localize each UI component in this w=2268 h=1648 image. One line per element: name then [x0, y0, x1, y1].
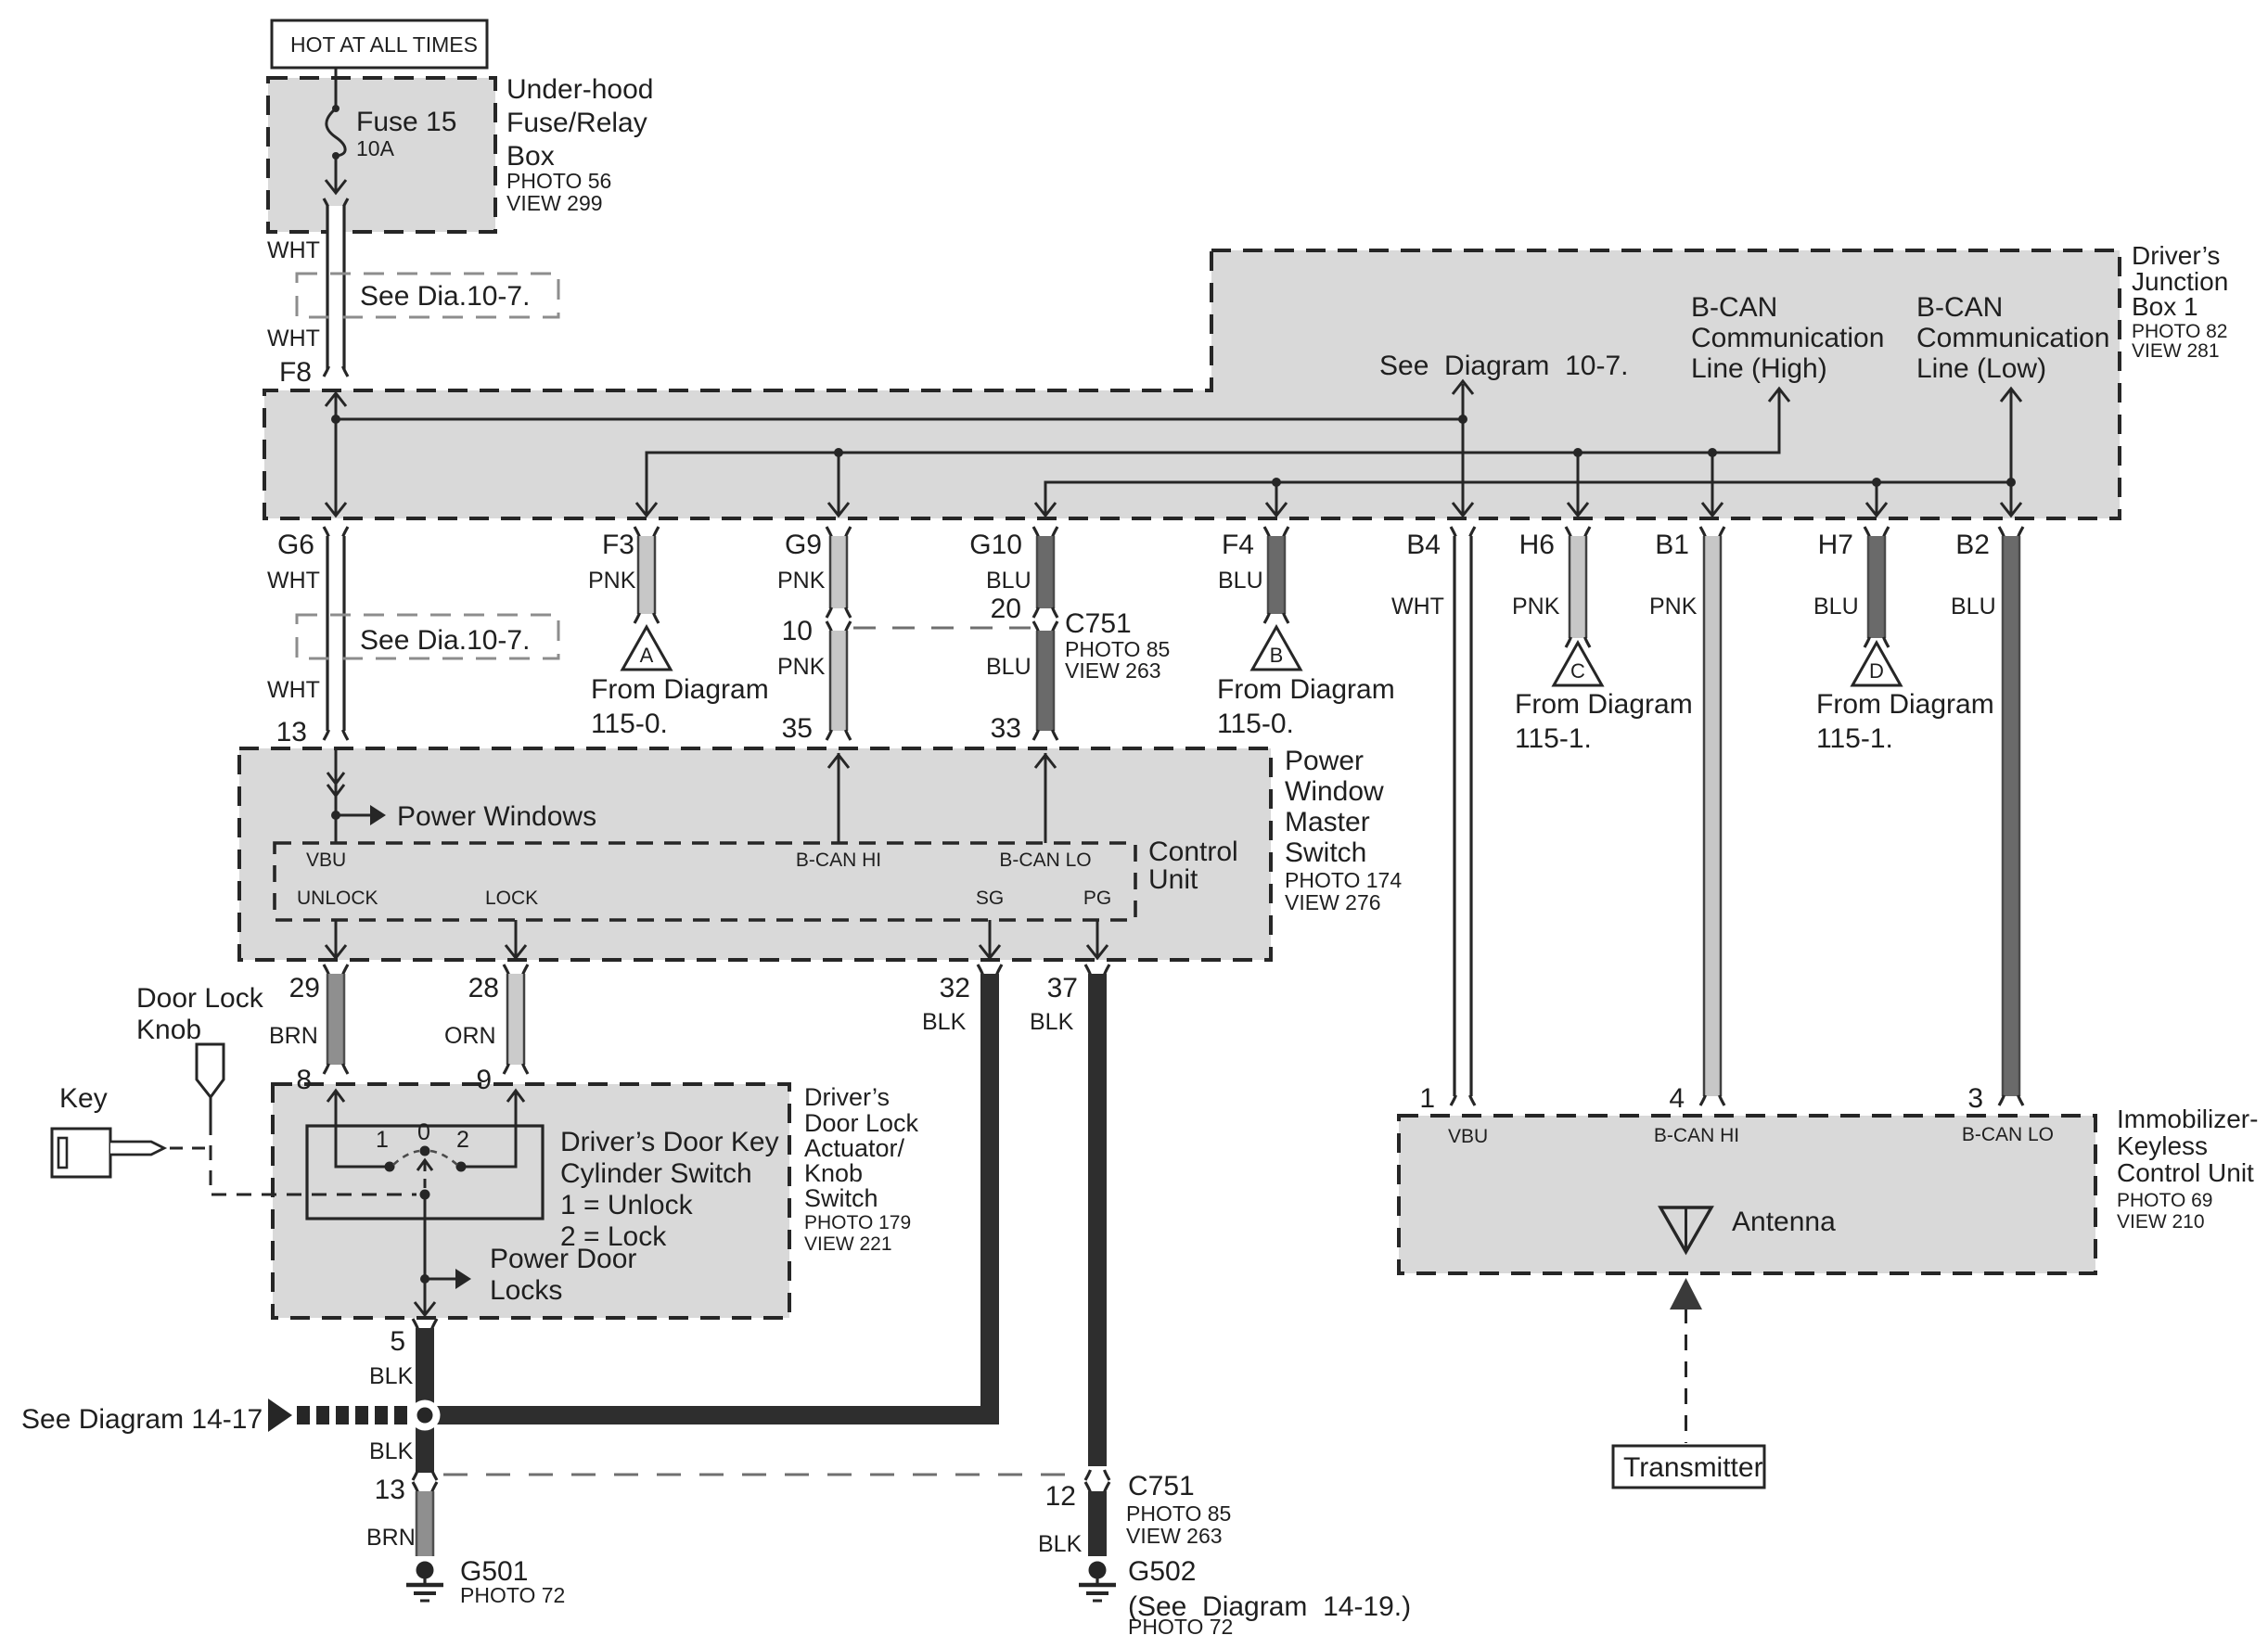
svg-text:Communication: Communication: [1916, 323, 2109, 353]
svg-text:115-1.: 115-1.: [1816, 723, 1893, 754]
wire B4 vertical drop to connector: [1453, 419, 1473, 516]
svg-text:Antenna: Antenna: [1732, 1207, 1836, 1237]
door lock knob symbol: [197, 1044, 224, 1120]
svg-text:From Diagram: From Diagram: [1515, 689, 1693, 720]
off-page triangle D: [1852, 643, 1901, 685]
svg-text:VIEW 276: VIEW 276: [1285, 890, 1381, 914]
svg-text:4: 4: [1669, 1083, 1685, 1114]
power door locks branch: [420, 1269, 471, 1289]
label Door Lock Knob: [136, 983, 264, 1045]
off-page arrow (See Diagram 14-17): [268, 1399, 292, 1432]
svg-text:Door Lock: Door Lock: [136, 983, 264, 1014]
svg-text:From Diagram: From Diagram: [1217, 674, 1395, 705]
svg-text:Cylinder Switch: Cylinder Switch: [560, 1158, 752, 1189]
connector pin 29 (BRN wire to pin 8): [289, 965, 348, 1074]
wire label BRN: [269, 1023, 318, 1049]
svg-text:B2: B2: [1955, 530, 1990, 560]
connector B4 (WHT wire down to immobilizer pin 1): [1406, 527, 1475, 1105]
wire label WHT (lower): [267, 326, 320, 351]
wire contact 1 to pin 8: [327, 1091, 390, 1167]
wire bus B-CAN HI: F3 to B-CAN Communication Line (High): [636, 389, 1789, 516]
off-page triangle A: [622, 627, 671, 670]
wire F4 vertical drop: [1266, 482, 1287, 516]
svg-text:Unit: Unit: [1148, 864, 1198, 895]
wire H6 vertical drop: [1568, 453, 1588, 516]
transmitter signal arrow (dashed): [1670, 1278, 1702, 1443]
svg-text:Door Lock: Door Lock: [804, 1109, 919, 1137]
pin B-CAN LO (control unit): [999, 850, 1091, 871]
svg-text:B-CAN: B-CAN: [1916, 292, 2003, 323]
pin 4 (immobilizer): [1669, 1083, 1685, 1114]
svg-text:Transmitter: Transmitter: [1623, 1452, 1763, 1483]
wire BLK: pin 32 down and left to splice: [433, 974, 999, 1424]
switch position labels 1 0 2: [376, 1119, 469, 1153]
pin VBU (immobilizer): [1448, 1126, 1488, 1147]
label G501 PHOTO 72: [460, 1556, 565, 1607]
svg-text:BLK: BLK: [369, 1438, 414, 1464]
pin UNLOCK: [297, 888, 378, 909]
wire label BLK (G502): [1038, 1531, 1083, 1557]
svg-text:VIEW 281: VIEW 281: [2132, 340, 2220, 362]
wire label BRN (G501): [366, 1525, 416, 1551]
wire label WHT (G6 upper): [267, 568, 320, 594]
svg-text:VBU: VBU: [306, 850, 346, 871]
wire contact 2 to pin 9: [461, 1091, 524, 1167]
switch contact 1: [385, 1162, 395, 1172]
svg-text:PHOTO 72: PHOTO 72: [1128, 1615, 1233, 1639]
svg-text:115-0.: 115-0.: [1217, 709, 1294, 739]
svg-text:PG: PG: [1083, 888, 1111, 909]
wire label BLK (below splice): [369, 1438, 414, 1464]
wire B-CAN LO riser (pin 33 into control unit): [1035, 753, 1056, 843]
control unit label: [1148, 837, 1238, 895]
connector G6 (WHT wire down to pin 13): [277, 527, 348, 740]
svg-text:PHOTO 174: PHOTO 174: [1285, 868, 1402, 892]
svg-text:G10: G10: [969, 530, 1022, 560]
svg-text:See Diagram 10-7.: See Diagram 10-7.: [1379, 351, 1628, 381]
svg-text:Knob: Knob: [136, 1015, 201, 1045]
under-hood fuse/relay box: [268, 78, 495, 232]
svg-text:BRN: BRN: [269, 1023, 318, 1049]
svg-text:13: 13: [375, 1475, 405, 1505]
wire label BLK (SG): [922, 1009, 967, 1035]
wire BLK: pin 37 down to C751 pin 12: [1088, 974, 1107, 1466]
wire bus B-CAN LO: G10 to B-CAN Communication Line (Low): [1035, 389, 2021, 516]
wire BLK pin 12 to ground G502: [1085, 1482, 1109, 1556]
key symbol: [52, 1129, 164, 1177]
svg-text:H6: H6: [1519, 530, 1555, 560]
wire SG output to pin 32: [980, 920, 1000, 958]
wire G9 vertical drop: [828, 453, 849, 516]
svg-text:G502: G502: [1128, 1556, 1196, 1587]
svg-text:BLU: BLU: [986, 568, 1031, 594]
wire UNLOCK output to pin 29: [326, 920, 346, 958]
label G502 (See Diagram 14-19.) PHOTO 72: [1128, 1556, 1411, 1639]
pin 12 (C751): [1045, 1470, 1109, 1512]
wire label PNK (H6): [1512, 594, 1560, 620]
wire label BLU (B2): [1951, 594, 1996, 620]
svg-text:Driver’s: Driver’s: [2132, 241, 2220, 270]
wire label WHT (G6 lower): [267, 677, 320, 703]
svg-text:B-CAN LO: B-CAN LO: [1962, 1124, 2054, 1145]
wire LOCK output to pin 28: [506, 920, 526, 958]
control unit inner box: [275, 843, 1135, 920]
svg-text:28: 28: [468, 973, 499, 1003]
label Key: [59, 1083, 108, 1114]
svg-text:C: C: [1570, 659, 1585, 683]
pin 35: [782, 713, 813, 744]
svg-text:WHT: WHT: [267, 677, 320, 703]
wire label BLU (F4): [1218, 568, 1263, 594]
svg-text:Box 1: Box 1: [2132, 292, 2198, 321]
svg-text:0: 0: [417, 1119, 430, 1145]
pin 33: [991, 713, 1021, 744]
svg-text:ORN: ORN: [444, 1023, 496, 1049]
immobilizer-keyless control unit label: [2117, 1105, 2258, 1233]
wire dashed thick link from off-page arrow: [297, 1406, 407, 1424]
svg-text:B1: B1: [1655, 530, 1689, 560]
svg-text:C751: C751: [1065, 608, 1132, 639]
transmitter box: [1613, 1446, 1764, 1488]
svg-text:1: 1: [1419, 1083, 1435, 1114]
label From Diagram 115-0. (A): [591, 674, 769, 739]
svg-text:20: 20: [991, 594, 1021, 624]
wire B1 vertical drop: [1702, 453, 1723, 516]
wire PG output to pin 37: [1087, 920, 1108, 958]
wire label ORN: [444, 1023, 496, 1049]
svg-text:VIEW 263: VIEW 263: [1065, 658, 1161, 683]
svg-text:Control: Control: [1148, 837, 1238, 867]
wire WHT fuse to F8 (connector at fuse box): [324, 198, 348, 377]
svg-text:Actuator/: Actuator/: [804, 1134, 905, 1162]
svg-text:UNLOCK: UNLOCK: [297, 888, 378, 909]
svg-text:PHOTO 69: PHOTO 69: [2117, 1190, 2212, 1211]
svg-text:Driver’s Door Key: Driver’s Door Key: [560, 1127, 779, 1157]
label Power Door Locks: [490, 1244, 636, 1306]
svg-text:B-CAN LO: B-CAN LO: [999, 850, 1091, 871]
svg-text:BLK: BLK: [1030, 1009, 1074, 1035]
svg-text:WHT: WHT: [267, 568, 320, 594]
wire G6 vertical inside junction box: [326, 393, 346, 516]
svg-text:115-1.: 115-1.: [1515, 723, 1592, 754]
svg-text:F8: F8: [279, 357, 312, 388]
wire label PNK (G9 lower): [777, 654, 826, 680]
svg-text:B-CAN HI: B-CAN HI: [796, 850, 881, 871]
svg-text:BLU: BLU: [1951, 594, 1996, 620]
svg-text:WHT: WHT: [267, 237, 320, 263]
switch wiper contact 0: [393, 1146, 457, 1166]
svg-text:From Diagram: From Diagram: [591, 674, 769, 705]
driver's junction box 1 (L-shaped): [264, 250, 2120, 518]
svg-text:B-CAN HI: B-CAN HI: [1654, 1125, 1739, 1146]
svg-text:Driver’s: Driver’s: [804, 1083, 890, 1111]
wire label BLU (H7): [1813, 594, 1859, 620]
svg-text:See Diagram 14-17: See Diagram 14-17: [21, 1404, 263, 1435]
connector H7 (BLU wire to triangle D): [1818, 527, 1889, 647]
svg-text:Switch: Switch: [804, 1184, 878, 1212]
pin 9: [476, 1065, 492, 1095]
svg-text:LOCK: LOCK: [485, 888, 538, 909]
svg-text:8: 8: [296, 1065, 312, 1095]
wire label BLU (G10 lower): [986, 654, 1031, 680]
svg-text:PHOTO 179: PHOTO 179: [804, 1212, 911, 1233]
driver's junction box 1 label: [2132, 241, 2228, 362]
svg-text:1: 1: [376, 1127, 389, 1153]
svg-text:BLU: BLU: [1218, 568, 1263, 594]
switch contact 2: [456, 1162, 467, 1172]
svg-text:Window: Window: [1285, 776, 1384, 807]
connector pin 32 (BLK wire): [940, 965, 1002, 1003]
connector C751 label (bottom): [1126, 1471, 1231, 1548]
pin 1 (immobilizer): [1419, 1083, 1435, 1114]
reference box See Dia.10-7. (upper): [297, 274, 558, 317]
svg-text:VBU: VBU: [1448, 1126, 1488, 1147]
connector C751 label (top): [1065, 608, 1170, 683]
off-page triangle B: [1252, 627, 1301, 670]
power window master switch label: [1285, 746, 1402, 914]
label Transmitter: [1623, 1452, 1763, 1483]
svg-text:Communication: Communication: [1691, 323, 1884, 353]
pin VBU: [306, 850, 346, 871]
label Antenna: [1732, 1207, 1836, 1237]
svg-text:PNK: PNK: [777, 654, 826, 680]
connector pin 37 (BLK wire): [1047, 965, 1109, 1003]
svg-text:115-0.: 115-0.: [591, 709, 668, 739]
svg-text:G9: G9: [785, 530, 822, 560]
svg-text:PHOTO 82: PHOTO 82: [2132, 321, 2227, 342]
wire BLK pin 5 to pin 13: [416, 1328, 434, 1473]
svg-text:Box: Box: [506, 141, 555, 172]
label B-CAN Communication Line (High): [1691, 292, 1884, 384]
reference box See Dia.10-7. (lower): [297, 615, 558, 658]
fuse F15 (Fuse 15, 10A): [326, 105, 456, 193]
svg-text:BLK: BLK: [369, 1363, 414, 1389]
svg-text:BLK: BLK: [1038, 1531, 1083, 1557]
wire from HOT feed into fuse box: [335, 68, 338, 109]
svg-text:G6: G6: [277, 530, 314, 560]
pin 13 (master switch): [276, 717, 307, 747]
wire label WHT (upper): [267, 237, 320, 263]
wire label BLK (pin 5): [369, 1363, 414, 1389]
svg-text:VIEW 210: VIEW 210: [2117, 1211, 2205, 1233]
power window master switch box: [239, 748, 1271, 960]
svg-text:Fuse/Relay: Fuse/Relay: [506, 108, 647, 138]
label From Diagram 115-1. (D): [1816, 689, 1994, 754]
svg-text:A: A: [640, 644, 654, 667]
connector G10 (BLU wire, pins 20/33, C751): [969, 527, 1057, 740]
svg-text:Power: Power: [1285, 746, 1364, 776]
wire label PNK (G9 upper): [777, 568, 826, 594]
svg-text:Knob: Knob: [804, 1159, 863, 1187]
svg-text:SG: SG: [976, 888, 1004, 909]
wire BRN pin 13 to ground G501: [413, 1482, 437, 1556]
svg-text:PHOTO 72: PHOTO 72: [460, 1583, 565, 1607]
under-hood fuse/relay box label: [506, 74, 653, 215]
wire H7 vertical drop: [1866, 482, 1887, 516]
pin 8: [296, 1065, 312, 1095]
antenna symbol: [1660, 1207, 1711, 1252]
label See Diagram 14-17: [21, 1404, 263, 1435]
svg-text:33: 33: [991, 713, 1021, 744]
pin PG: [1083, 888, 1111, 909]
svg-text:F4: F4: [1222, 530, 1254, 560]
svg-text:H7: H7: [1818, 530, 1853, 560]
svg-text:See Dia.10-7.: See Dia.10-7.: [360, 281, 530, 312]
svg-text:BRN: BRN: [366, 1525, 416, 1551]
connector F3 (PNK wire to triangle A): [602, 527, 659, 623]
wire label PNK (B1): [1649, 594, 1698, 620]
power source label HOT AT ALL TIMES: [272, 20, 487, 68]
svg-text:Key: Key: [59, 1083, 108, 1114]
connector G9 (PNK wire, pins 10/35, C751): [782, 527, 851, 740]
svg-text:Keyless: Keyless: [2117, 1131, 2208, 1160]
pin B-CAN HI (immobilizer): [1654, 1125, 1739, 1146]
svg-text:Fuse 15: Fuse 15: [356, 107, 456, 137]
wire label BLU (G10 upper): [986, 568, 1031, 594]
svg-text:B-CAN: B-CAN: [1691, 292, 1777, 323]
svg-text:BLK: BLK: [922, 1009, 967, 1035]
svg-text:Power Door: Power Door: [490, 1244, 636, 1274]
svg-text:D: D: [1869, 659, 1884, 683]
wire B-CAN HI riser (pin 35 into control unit): [828, 753, 849, 843]
ground G501: [406, 1562, 443, 1602]
ground G502: [1079, 1562, 1116, 1602]
svg-text:BLU: BLU: [986, 654, 1031, 680]
svg-text:13: 13: [276, 717, 307, 747]
svg-text:WHT: WHT: [1391, 594, 1444, 620]
svg-text:9: 9: [476, 1065, 492, 1095]
svg-text:F3: F3: [602, 530, 634, 560]
svg-text:Control Unit: Control Unit: [2117, 1158, 2254, 1187]
connector F4 (BLU wire to triangle B): [1222, 527, 1288, 623]
svg-text:B4: B4: [1406, 530, 1441, 560]
svg-text:Under-hood: Under-hood: [506, 74, 653, 105]
svg-text:C751: C751: [1128, 1471, 1195, 1501]
pin 3 (immobilizer): [1967, 1083, 1983, 1114]
svg-text:VIEW 263: VIEW 263: [1126, 1524, 1223, 1548]
svg-text:2: 2: [456, 1127, 469, 1153]
wire label PNK (F3): [588, 568, 636, 594]
connector pin 5 (BLK wire): [390, 1319, 437, 1357]
connector H6 (PNK wire to triangle C): [1519, 527, 1590, 647]
svg-text:32: 32: [940, 973, 970, 1003]
pin SG: [976, 888, 1004, 909]
label B-CAN Communication Line (Low): [1916, 292, 2109, 384]
svg-text:Line (High): Line (High): [1691, 353, 1827, 384]
svg-text:3: 3: [1967, 1083, 1983, 1114]
svg-text:Power Windows: Power Windows: [397, 801, 596, 832]
cylinder switch label: [560, 1127, 779, 1252]
svg-text:1 = Unlock: 1 = Unlock: [560, 1190, 694, 1220]
svg-text:10: 10: [782, 616, 813, 646]
svg-text:VIEW 221: VIEW 221: [804, 1233, 892, 1255]
splice junction (circle): [410, 1400, 441, 1431]
svg-text:10A: 10A: [356, 136, 395, 160]
svg-text:12: 12: [1045, 1481, 1076, 1512]
off-page triangle C: [1554, 643, 1602, 685]
svg-text:37: 37: [1047, 973, 1078, 1003]
svg-text:PHOTO 85: PHOTO 85: [1126, 1501, 1231, 1526]
svg-text:HOT AT ALL TIMES: HOT AT ALL TIMES: [290, 32, 478, 57]
svg-text:From Diagram: From Diagram: [1816, 689, 1994, 720]
wire wiper common (dashed) to junction: [417, 1160, 432, 1200]
svg-text:Switch: Switch: [1285, 837, 1366, 868]
pin F8: [279, 357, 312, 388]
driver's door key cylinder switch box: [307, 1126, 543, 1219]
svg-text:PNK: PNK: [777, 568, 826, 594]
svg-text:See Dia.10-7.: See Dia.10-7.: [360, 625, 530, 656]
pin 13 (C751): [375, 1470, 437, 1505]
label Power Windows: [397, 801, 596, 832]
svg-text:35: 35: [782, 713, 813, 744]
immobilizer-keyless control unit box: [1399, 1116, 2095, 1273]
svg-text:PNK: PNK: [1649, 594, 1698, 620]
svg-text:PNK: PNK: [588, 568, 636, 594]
connector B1 (PNK wire down to immobilizer pin 4): [1655, 527, 1724, 1105]
connector B2 (BLU wire down to immobilizer pin 3): [1955, 527, 2023, 1105]
label From Diagram 115-0. (B): [1217, 674, 1395, 739]
svg-text:29: 29: [289, 973, 320, 1003]
driver's door lock actuator/knob switch box: [273, 1084, 789, 1318]
svg-text:WHT: WHT: [267, 326, 320, 351]
svg-text:PNK: PNK: [1512, 594, 1560, 620]
svg-text:VIEW 299: VIEW 299: [506, 191, 603, 215]
svg-text:Immobilizer-: Immobilizer-: [2117, 1105, 2258, 1133]
wire key/knob linkage (dashed): [170, 1120, 416, 1194]
wire bus WHT: F8/G6 to B4 with branch to See Diagram 10-7.: [331, 381, 1473, 424]
svg-text:BLU: BLU: [1813, 594, 1859, 620]
wire 13 to VBU with Power Windows branch: [327, 748, 386, 843]
wire label BLK (PG): [1030, 1009, 1074, 1035]
connector C751 interface dashes (top): [853, 627, 1031, 630]
svg-text:Master: Master: [1285, 807, 1370, 837]
svg-text:5: 5: [390, 1326, 405, 1357]
pin LOCK: [485, 888, 538, 909]
wire common down to power door locks branch: [415, 1194, 435, 1315]
label From Diagram 115-1. (C): [1515, 689, 1693, 754]
reference label See Diagram 10-7.: [1379, 351, 1628, 381]
wire label WHT (B4): [1391, 594, 1444, 620]
driver's door lock actuator label: [804, 1083, 919, 1255]
connector C751 interface dashes (bottom): [443, 1474, 1078, 1476]
pin B-CAN LO (immobilizer): [1962, 1124, 2054, 1145]
pin B-CAN HI (control unit): [796, 850, 881, 871]
svg-text:B: B: [1270, 644, 1284, 667]
connector pin 28 (ORN wire to pin 9): [468, 965, 528, 1074]
svg-text:Line (Low): Line (Low): [1916, 353, 2046, 384]
svg-text:PHOTO 56: PHOTO 56: [506, 169, 611, 193]
svg-text:Locks: Locks: [490, 1275, 562, 1306]
